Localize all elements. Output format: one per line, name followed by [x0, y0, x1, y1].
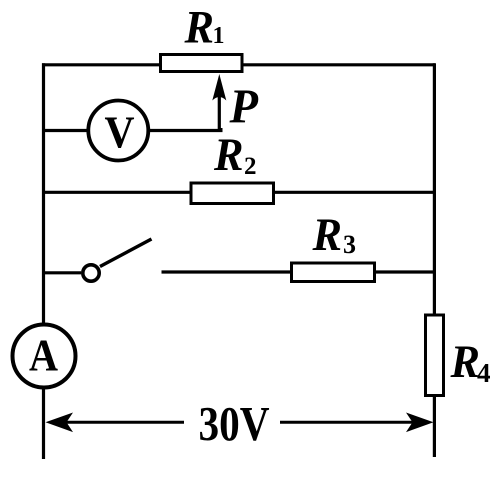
wire R2 row left (left rail to R2) — [42, 191, 191, 194]
wire right vertical (corner down to R4) — [433, 63, 436, 314]
resistor R4 (vertical) — [426, 315, 444, 396]
resistor R1 (slide rheostat body) — [161, 55, 243, 72]
svg-text:4: 4 — [477, 358, 491, 388]
wire left vertical top (from top-left corner down to ammeter) — [42, 63, 45, 323]
wire R2 row right (R2 to right rail) — [275, 191, 435, 194]
wire top horizontal left segment (corner to R1) — [42, 63, 160, 66]
wire voltmeter row left (left rail to voltmeter) — [42, 129, 88, 132]
switch S (open knife switch) — [83, 265, 99, 281]
wire top horizontal right segment (R1 to top-right corner) — [244, 63, 436, 66]
resistor R2 — [191, 183, 274, 204]
svg-text:R: R — [213, 129, 243, 181]
svg-text:R: R — [312, 209, 342, 261]
svg-text:3: 3 — [343, 230, 356, 259]
wire switch row stub (left rail to switch) — [42, 271, 81, 274]
resistor R3 — [292, 263, 375, 282]
dimension arrow left (30V span, pointing left) — [58, 421, 184, 424]
wire left vertical bottom (ammeter to bottom end) — [42, 388, 45, 460]
svg-text:2: 2 — [244, 153, 257, 180]
svg-text:R: R — [450, 336, 480, 388]
svg-text:1: 1 — [213, 23, 225, 49]
wiper arrow P of rheostat R1 — [218, 96, 221, 130]
svg-text:V: V — [105, 107, 135, 158]
wire switch to R3 — [162, 270, 292, 273]
wire right vertical bottom (R4 to bottom end) — [433, 397, 436, 457]
wire voltmeter to wiper — [148, 128, 221, 131]
svg-text:30V: 30V — [199, 396, 270, 451]
svg-text:P: P — [229, 79, 259, 134]
svg-text:A: A — [29, 330, 58, 381]
wire R3 to right rail — [376, 270, 435, 273]
svg-text:R: R — [184, 2, 214, 54]
voltmeter V — [88, 101, 148, 161]
dimension arrow right (30V span, pointing right) — [280, 421, 421, 424]
ammeter A — [13, 325, 76, 388]
